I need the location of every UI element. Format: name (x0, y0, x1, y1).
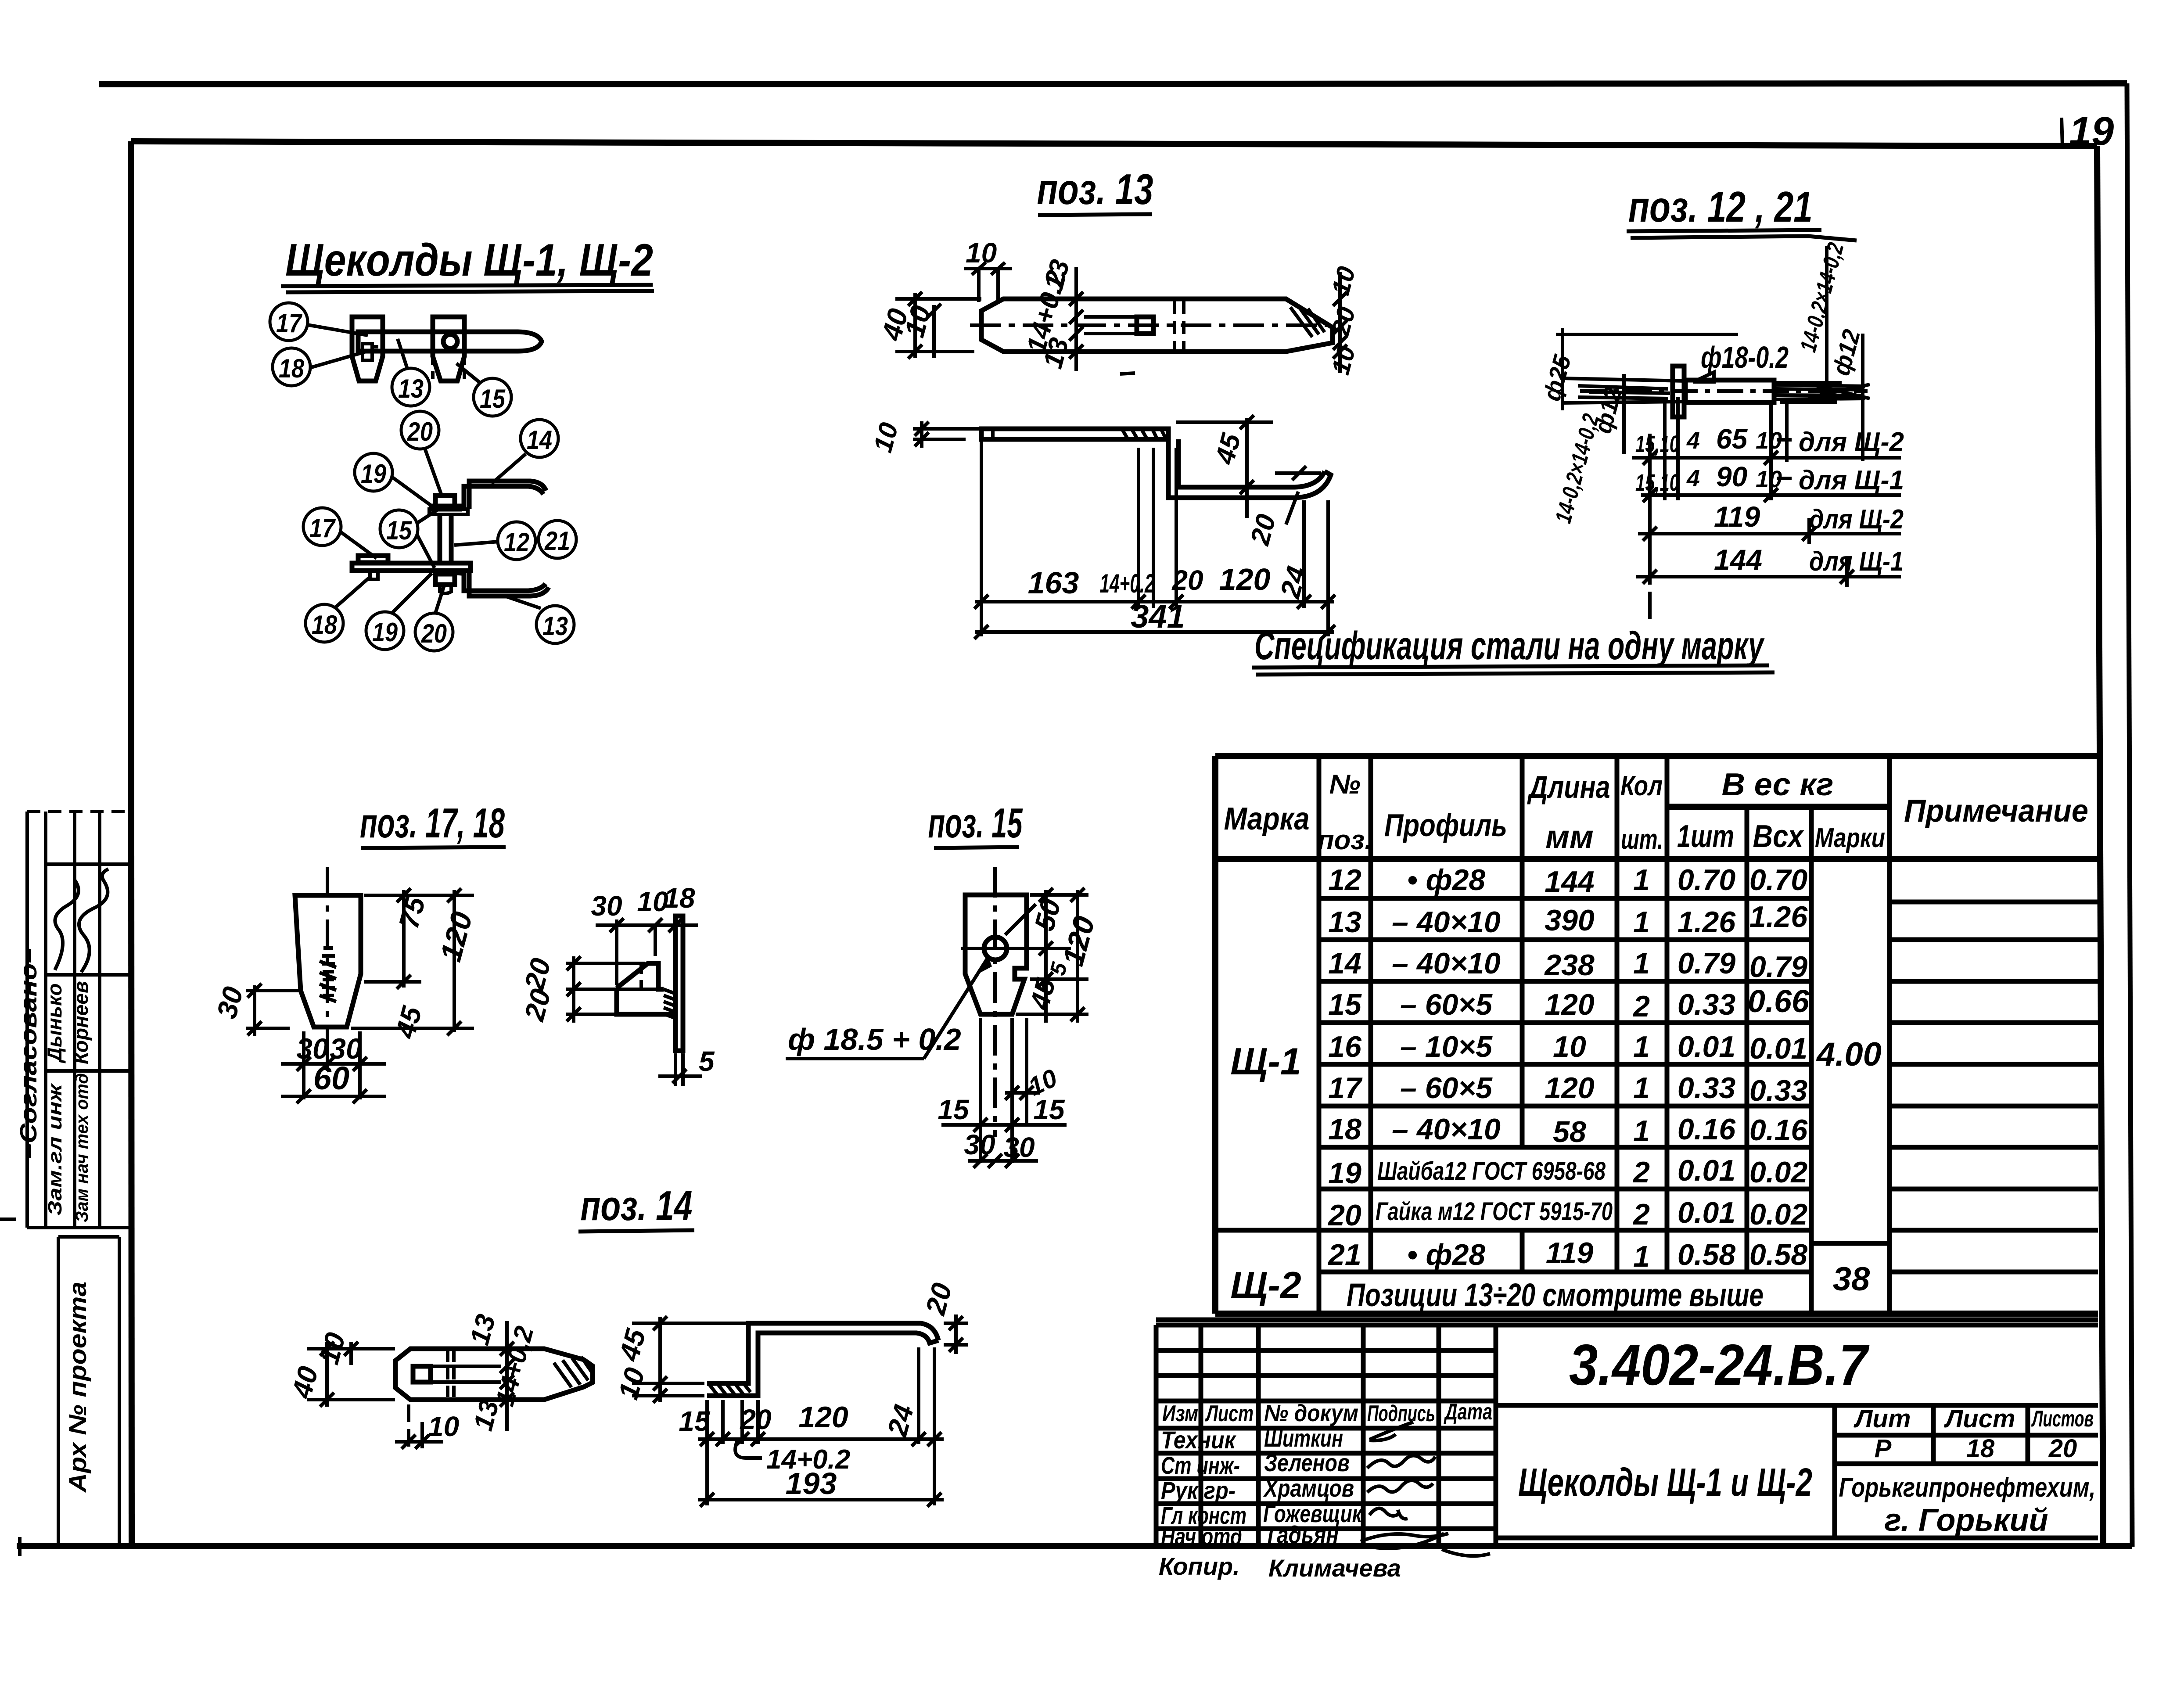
svg-text:Примечание: Примечание (1904, 794, 2088, 829)
svg-text:2: 2 (1632, 1156, 1650, 1189)
svg-text:0.16: 0.16 (1749, 1113, 1808, 1147)
svg-text:18: 18 (1328, 1113, 1361, 1146)
svg-text:50: 50 (1028, 896, 1067, 934)
svg-text:18: 18 (664, 882, 695, 914)
svg-text:Изм: Изм (1162, 1401, 1198, 1426)
svg-text:–Согласовано–: –Согласовано– (15, 948, 42, 1159)
svg-text:18: 18 (1966, 1434, 1995, 1463)
svg-text:– 60×5: – 60×5 (1400, 988, 1493, 1021)
svg-text:Листов: Листов (2031, 1406, 2094, 1432)
svg-text:• ф28: • ф28 (1407, 863, 1486, 897)
svg-text:Ст инж-: Ст инж- (1161, 1451, 1240, 1479)
svg-text:Длина: Длина (1527, 770, 1610, 805)
svg-text:20: 20 (518, 955, 557, 994)
svg-text:0.33: 0.33 (1678, 1071, 1736, 1105)
svg-text:19: 19 (1328, 1156, 1361, 1190)
svg-text:4: 4 (1686, 465, 1700, 492)
svg-text:0.70: 0.70 (1749, 863, 1808, 897)
svg-text:10: 10 (1326, 343, 1361, 377)
svg-text:15,10: 15,10 (1635, 470, 1679, 496)
svg-text:Лит: Лит (1854, 1404, 1911, 1433)
svg-text:24: 24 (881, 1401, 920, 1440)
svg-text:12: 12 (504, 528, 529, 557)
svg-text:390: 390 (1545, 904, 1595, 937)
svg-text:Арх № проекта: Арх № проекта (64, 1282, 91, 1493)
svg-text:0.01: 0.01 (1678, 1030, 1735, 1063)
svg-text:Щ-1: Щ-1 (1230, 1041, 1301, 1083)
svg-text:– 60×5: – 60×5 (1400, 1071, 1493, 1105)
svg-text:0.33: 0.33 (1749, 1074, 1808, 1107)
svg-text:21: 21 (544, 526, 570, 556)
svg-text:поз. 14: поз. 14 (581, 1182, 693, 1229)
svg-text:60: 60 (313, 1060, 349, 1096)
svg-text:0.16: 0.16 (1678, 1113, 1736, 1146)
svg-text:Щеколды Щ-1 и Щ-2: Щеколды Щ-1 и Щ-2 (1518, 1461, 1812, 1505)
svg-text:20: 20 (421, 619, 447, 648)
svg-text:1: 1 (1633, 905, 1650, 939)
svg-text:20: 20 (518, 986, 557, 1024)
svg-text:120: 120 (1219, 562, 1271, 596)
svg-text:19: 19 (361, 459, 387, 488)
svg-text:– 40×10: – 40×10 (1392, 905, 1501, 939)
svg-text:30: 30 (211, 984, 249, 1022)
svg-text:1: 1 (1633, 1240, 1650, 1273)
svg-text:Спецификация стали на одну мар: Спецификация стали на одну марку (1254, 624, 1765, 668)
svg-text:20: 20 (1327, 1199, 1361, 1232)
svg-text:17: 17 (1328, 1071, 1363, 1105)
svg-text:24: 24 (1274, 563, 1313, 602)
svg-text:Нач отд: Нач отд (1161, 1523, 1242, 1550)
svg-text:Марка: Марка (1224, 801, 1310, 837)
svg-text:0.66: 0.66 (1748, 984, 1810, 1019)
svg-text:10: 10 (868, 420, 904, 456)
svg-text:ф12: ф12 (1827, 327, 1865, 378)
svg-text:18: 18 (279, 354, 305, 383)
svg-text:Щ-2: Щ-2 (1230, 1264, 1301, 1307)
svg-text:13: 13 (398, 374, 424, 403)
svg-text:0.79: 0.79 (1749, 950, 1808, 984)
svg-text:19: 19 (372, 618, 398, 647)
svg-text:38: 38 (1833, 1261, 1870, 1298)
svg-text:45: 45 (389, 1002, 428, 1042)
svg-text:1.26: 1.26 (1678, 905, 1736, 939)
svg-text:30: 30 (1003, 1131, 1035, 1163)
svg-text:10: 10 (1553, 1030, 1586, 1063)
svg-text:• ф28: • ф28 (1407, 1238, 1486, 1271)
svg-text:5: 5 (699, 1045, 715, 1077)
svg-text:2: 2 (1632, 990, 1650, 1023)
svg-text:65: 65 (1716, 423, 1748, 455)
svg-text:ф25: ф25 (1537, 352, 1576, 403)
svg-text:2: 2 (1632, 1198, 1650, 1231)
svg-text:Щеколды Щ-1, Щ-2: Щеколды Щ-1, Щ-2 (285, 235, 653, 286)
svg-text:45: 45 (1209, 430, 1246, 468)
svg-text:поз. 17, 18: поз. 17, 18 (360, 800, 505, 847)
svg-text:для Щ-1: для Щ-1 (1809, 546, 1904, 577)
svg-text:Лист: Лист (1205, 1401, 1254, 1426)
svg-text:1: 1 (1633, 947, 1650, 980)
svg-text:Всх: Всх (1753, 819, 1805, 854)
svg-text:20: 20 (1171, 564, 1203, 596)
svg-text:№: № (1329, 769, 1360, 800)
svg-text:144: 144 (1714, 543, 1762, 576)
svg-text:Позиции 13÷20 смотрите выше: Позиции 13÷20 смотрите выше (1347, 1277, 1764, 1313)
svg-text:для Щ-2: для Щ-2 (1799, 427, 1904, 457)
svg-text:0.02: 0.02 (1749, 1198, 1808, 1231)
svg-text:поз. 13: поз. 13 (1037, 165, 1153, 213)
svg-text:0.01: 0.01 (1678, 1196, 1735, 1229)
svg-text:Дата: Дата (1444, 1399, 1492, 1425)
svg-text:238: 238 (1544, 948, 1595, 982)
svg-text:0.58: 0.58 (1678, 1238, 1736, 1271)
svg-text:Шайба12 ГОСТ 6958-68: Шайба12 ГОСТ 6958-68 (1377, 1157, 1606, 1185)
svg-text:14: 14 (1328, 947, 1361, 980)
svg-text:45: 45 (613, 1325, 652, 1365)
svg-text:341: 341 (1131, 598, 1185, 635)
svg-text:Гайка м12 ГОСТ 5915-70: Гайка м12 ГОСТ 5915-70 (1376, 1197, 1613, 1226)
svg-text:Лист: Лист (1943, 1404, 2015, 1433)
svg-text:15: 15 (938, 1094, 970, 1125)
svg-text:144: 144 (1545, 865, 1594, 898)
svg-text:Корнеев: Корнеев (69, 981, 92, 1064)
svg-text:0.02: 0.02 (1749, 1156, 1808, 1189)
svg-text:Зам.гл инж: Зам.гл инж (44, 1083, 66, 1216)
svg-text:0.01: 0.01 (1678, 1154, 1735, 1187)
svg-text:10: 10 (1326, 263, 1361, 298)
svg-text:1: 1 (1633, 1030, 1650, 1063)
svg-text:0.33: 0.33 (1678, 988, 1736, 1021)
svg-text:20: 20 (1245, 511, 1282, 548)
svg-text:14: 14 (527, 425, 552, 455)
svg-text:15: 15 (679, 1405, 711, 1437)
svg-text:15: 15 (1328, 988, 1362, 1021)
svg-text:поз.: поз. (1318, 825, 1372, 855)
svg-text:Зеленов: Зеленов (1264, 1449, 1350, 1476)
svg-text:ф18-0.2: ф18-0.2 (1701, 340, 1789, 374)
svg-text:поз. 12 , 21: поз. 12 , 21 (1628, 183, 1813, 231)
svg-text:119: 119 (1714, 500, 1760, 533)
svg-text:№ докум: № докум (1264, 1400, 1358, 1426)
svg-text:30: 30 (964, 1129, 995, 1160)
svg-text:17: 17 (276, 309, 302, 338)
svg-text:Р: Р (1875, 1434, 1892, 1463)
svg-text:Тадьян: Тадьян (1264, 1521, 1339, 1548)
svg-text:Техник: Техник (1161, 1426, 1236, 1454)
svg-text:Марки: Марки (1815, 823, 1885, 853)
svg-text:193: 193 (786, 1466, 837, 1501)
svg-text:Кол: Кол (1620, 770, 1663, 801)
svg-text:90: 90 (1716, 461, 1747, 492)
svg-text:120: 120 (1056, 912, 1101, 969)
svg-text:Зам нач тех отд: Зам нач тех отд (72, 1073, 92, 1222)
svg-text:4: 4 (1686, 427, 1700, 454)
svg-text:30: 30 (591, 890, 622, 922)
svg-text:– 10×5: – 10×5 (1400, 1030, 1493, 1063)
svg-text:0.79: 0.79 (1678, 947, 1736, 980)
svg-text:0.70: 0.70 (1678, 863, 1736, 897)
svg-text:14-0,2×14-0,2: 14-0,2×14-0,2 (1551, 411, 1604, 526)
svg-text:120: 120 (434, 908, 479, 965)
svg-text:1: 1 (1633, 863, 1650, 897)
svg-text:0.01: 0.01 (1749, 1032, 1807, 1065)
svg-text:мм: мм (1545, 819, 1593, 855)
svg-text:15: 15 (1033, 1094, 1065, 1125)
svg-text:Рук гр-: Рук гр- (1161, 1476, 1236, 1504)
svg-text:– 40×10: – 40×10 (1392, 947, 1501, 980)
svg-text:119: 119 (1546, 1236, 1594, 1270)
svg-text:15,10: 15,10 (1635, 431, 1679, 457)
svg-text:Копир.: Копир. (1159, 1552, 1240, 1580)
svg-text:40: 40 (285, 1363, 324, 1402)
svg-text:14+0.2: 14+0.2 (1100, 569, 1155, 598)
svg-text:10: 10 (313, 1329, 352, 1368)
svg-text:20: 20 (740, 1404, 771, 1435)
svg-text:поз. 15: поз. 15 (928, 800, 1023, 847)
svg-text:15: 15 (480, 384, 506, 413)
svg-text:4.00: 4.00 (1816, 1036, 1882, 1073)
svg-text:Профиль: Профиль (1384, 808, 1507, 843)
svg-text:120: 120 (798, 1401, 848, 1434)
svg-text:120: 120 (1545, 1071, 1595, 1105)
svg-text:0.58: 0.58 (1749, 1238, 1808, 1271)
svg-text:20: 20 (920, 1280, 958, 1318)
svg-text:19: 19 (2069, 109, 2114, 154)
svg-text:12: 12 (1328, 863, 1361, 897)
svg-text:Дынько: Дынько (43, 983, 66, 1063)
svg-text:58: 58 (1553, 1115, 1586, 1149)
svg-text:1.26: 1.26 (1749, 900, 1808, 934)
svg-text:15: 15 (386, 516, 412, 545)
svg-text:13: 13 (1328, 905, 1361, 939)
svg-text:– 40×10: – 40×10 (1392, 1113, 1501, 1146)
svg-text:163: 163 (1028, 566, 1079, 600)
svg-text:3.402-24.В.7: 3.402-24.В.7 (1569, 1332, 1870, 1397)
svg-text:1: 1 (1633, 1114, 1650, 1148)
svg-text:10: 10 (966, 237, 997, 269)
svg-text:21: 21 (1327, 1238, 1361, 1271)
svg-text:1шт: 1шт (1677, 819, 1734, 854)
svg-text:для Щ-2: для Щ-2 (1809, 504, 1904, 535)
svg-text:Климачева: Климачева (1268, 1554, 1401, 1582)
svg-text:Шиткин: Шиткин (1264, 1424, 1343, 1452)
svg-text:18: 18 (312, 610, 338, 639)
svg-text:г. Горький: г. Горький (1884, 1503, 2048, 1538)
svg-text:В ес кг: В ес кг (1722, 767, 1834, 802)
svg-text:13: 13 (542, 611, 568, 641)
svg-text:16: 16 (1328, 1030, 1362, 1063)
svg-text:17: 17 (309, 514, 336, 543)
svg-text:13: 13 (464, 1311, 501, 1348)
svg-text:10: 10 (428, 1411, 459, 1442)
svg-text:Храмцов: Храмцов (1263, 1474, 1354, 1502)
svg-text:шт.: шт. (1621, 823, 1663, 855)
svg-text:Горькгипронефтехим,: Горькгипронефтехим, (1839, 1473, 2096, 1503)
svg-text:1: 1 (1633, 1071, 1650, 1105)
svg-text:120: 120 (1545, 988, 1595, 1021)
svg-text:20: 20 (2048, 1434, 2077, 1463)
svg-text:20: 20 (407, 417, 433, 446)
svg-text:Подпись: Подпись (1367, 1401, 1435, 1426)
svg-text:для Щ-1: для Щ-1 (1799, 465, 1904, 496)
